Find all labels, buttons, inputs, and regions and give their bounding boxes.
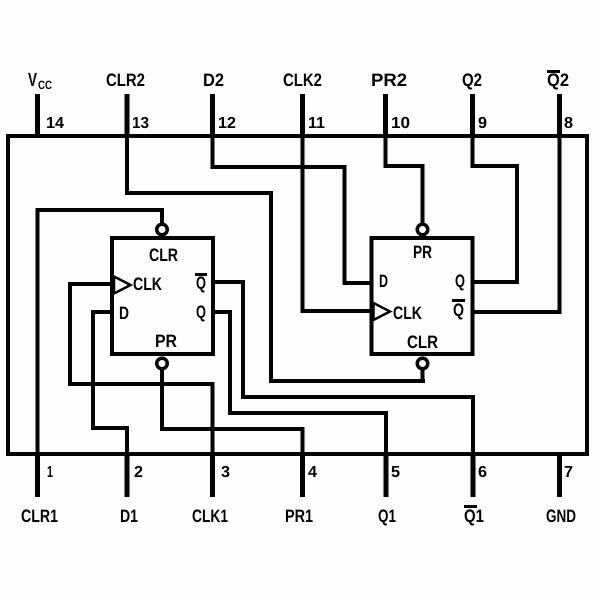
- svg-text:6: 6: [478, 464, 487, 481]
- wire net CLR2: pin13 to U2 CLR bubble: [125, 136, 425, 383]
- svg-text:5: 5: [391, 464, 400, 481]
- svg-text:CLR2: CLR2: [106, 70, 145, 90]
- svg-text:2: 2: [134, 464, 143, 481]
- wire net CLK2: pin11 to U2 CLK: [301, 136, 372, 313]
- svg-text:CLK: CLK: [393, 303, 422, 323]
- pin 2 stub (D1): [125, 452, 130, 497]
- label Q-bar 1: [464, 505, 484, 526]
- svg-text:V: V: [28, 70, 37, 91]
- pin 11 stub (CLK2): [300, 94, 305, 138]
- pin 5 stub (Q1): [384, 452, 389, 497]
- svg-text:Q: Q: [196, 302, 206, 322]
- U2 clock edge triangle: [374, 303, 391, 320]
- wire net PR1: pin4 to U1 PR bubble: [160, 370, 305, 454]
- svg-text:Q: Q: [196, 273, 206, 293]
- svg-text:Q2: Q2: [462, 70, 482, 90]
- wire net Q2: pin9 to U2 Q: [471, 136, 520, 284]
- U2 label Q-bar: [452, 299, 465, 320]
- wire net D1: pin2 to U1 D: [91, 310, 129, 454]
- U1 clock edge triangle: [114, 277, 131, 294]
- wire net Q-bar 2: pin8 to U2 Q-bar: [473, 136, 562, 314]
- svg-text:PR: PR: [155, 331, 177, 351]
- svg-text:D2: D2: [203, 70, 224, 90]
- U1 CLR bubble: [157, 224, 168, 235]
- svg-text:3: 3: [221, 464, 230, 481]
- svg-text:7: 7: [564, 464, 573, 481]
- svg-text:Q2: Q2: [547, 70, 569, 90]
- svg-text:Q: Q: [453, 300, 464, 320]
- pin 6 stub (Q-bar 1): [471, 452, 476, 497]
- svg-text:CLR: CLR: [407, 332, 438, 352]
- svg-text:11: 11: [308, 115, 325, 132]
- flip-flop U2 (right, FF2) box: [372, 238, 473, 354]
- svg-text:14: 14: [46, 115, 64, 132]
- svg-text:D: D: [379, 271, 388, 291]
- svg-text:12: 12: [218, 115, 236, 132]
- pin 4 stub (PR1): [300, 452, 305, 497]
- label VCC: [28, 70, 52, 92]
- svg-text:GND: GND: [546, 506, 576, 526]
- svg-text:1: 1: [47, 464, 53, 481]
- flip-flop U1 (left, FF1) box: [112, 238, 213, 354]
- U1 PR bubble: [157, 358, 168, 369]
- svg-text:CLR: CLR: [149, 245, 178, 265]
- svg-text:PR2: PR2: [371, 70, 407, 90]
- svg-text:4: 4: [308, 464, 317, 481]
- wire net Q1: pin5 to U1 Q: [213, 310, 388, 454]
- svg-text:CLK1: CLK1: [192, 506, 228, 526]
- pin 3 stub (CLK1): [210, 452, 215, 497]
- svg-text:Q1: Q1: [464, 506, 484, 526]
- U2 PR bubble: [417, 224, 428, 235]
- svg-text:Q: Q: [455, 271, 465, 291]
- svg-text:9: 9: [478, 115, 487, 132]
- svg-text:13: 13: [132, 115, 149, 132]
- pin 1 stub (CLR1): [35, 452, 40, 497]
- label Q-bar 2: [547, 70, 569, 90]
- wire net PR2: pin10 to U2 PR bubble: [384, 136, 425, 223]
- pin 13 stub (CLR2): [125, 94, 130, 138]
- svg-text:Q1: Q1: [378, 506, 396, 526]
- svg-text:CLR1: CLR1: [21, 506, 58, 526]
- pin 7 stub (GND): [557, 452, 562, 497]
- svg-text:CC: CC: [38, 78, 52, 92]
- U2 CLR bubble: [417, 358, 428, 369]
- wire net D2: pin12 to U2 D: [211, 136, 372, 285]
- svg-text:PR1: PR1: [285, 506, 313, 526]
- svg-text:PR: PR: [413, 242, 432, 262]
- pin 8 stub (Q-bar 2): [557, 94, 562, 138]
- wire net CLR1: pin1 to U1 CLR bubble: [36, 208, 165, 454]
- U1 label Q-bar: [195, 273, 207, 293]
- pin 12 stub (D2): [210, 94, 215, 138]
- svg-text:D: D: [119, 303, 129, 323]
- wire net CLK1: pin3 to U1 CLK: [68, 282, 215, 454]
- svg-text:CLK: CLK: [133, 274, 162, 294]
- svg-text:CLK2: CLK2: [283, 70, 322, 90]
- pin 14 stub (VCC): [35, 94, 40, 138]
- wire net Q-bar 1: pin6 to U1 Q-bar: [213, 280, 475, 454]
- package outline (14-pin DIP boundary): [6, 134, 589, 456]
- pin 9 stub (Q2): [470, 94, 475, 138]
- svg-text:8: 8: [564, 115, 573, 132]
- svg-text:10: 10: [391, 115, 410, 132]
- svg-text:D1: D1: [120, 506, 138, 526]
- pin 10 stub (PR2): [383, 94, 388, 138]
